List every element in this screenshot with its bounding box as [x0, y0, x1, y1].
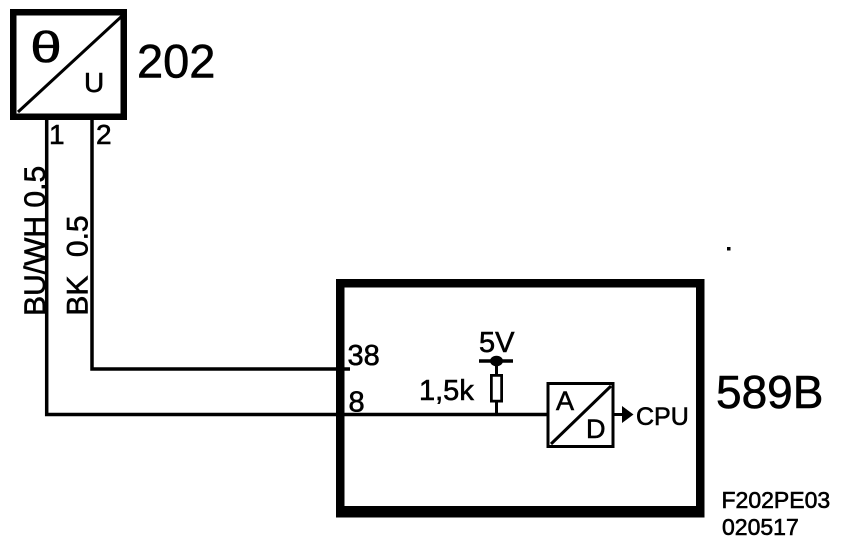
wire BK (sensor pin 2 to ECU pin 38): [92, 119, 350, 369]
5V supply symbol: [479, 356, 513, 375]
svg-text:8: 8: [349, 387, 365, 419]
A/D converter box: [548, 384, 613, 447]
svg-text:U: U: [84, 67, 104, 98]
arrow to CPU: [614, 406, 634, 423]
sensor diagonal: [18, 16, 122, 112]
svg-text:BK: BK: [62, 276, 95, 316]
svg-text:1: 1: [49, 119, 65, 150]
svg-text:A: A: [556, 386, 574, 416]
svg-text:F202PE03: F202PE03: [722, 487, 831, 513]
speck dot: [727, 247, 731, 251]
svg-text:CPU: CPU: [636, 403, 689, 431]
resistor 1,5k: [490, 374, 503, 416]
svg-text:1,5k: 1,5k: [419, 375, 474, 407]
wire BU/WH (sensor pin 1 to ECU pin 8): [47, 119, 547, 415]
svg-text:0.5: 0.5: [62, 215, 95, 257]
ECU 589B box: [336, 279, 705, 518]
svg-text:589B: 589B: [716, 366, 823, 418]
svg-text:38: 38: [348, 340, 380, 372]
svg-text:θ: θ: [30, 22, 61, 71]
svg-text:D: D: [586, 414, 606, 444]
svg-text:2: 2: [96, 119, 112, 150]
svg-text:202: 202: [137, 35, 215, 88]
svg-text:5V: 5V: [479, 327, 515, 359]
svg-text:020517: 020517: [722, 514, 799, 540]
svg-text:BU/WH 0.5: BU/WH 0.5: [19, 166, 52, 316]
temperature sensor 202 (theta/U box): [10, 9, 127, 120]
